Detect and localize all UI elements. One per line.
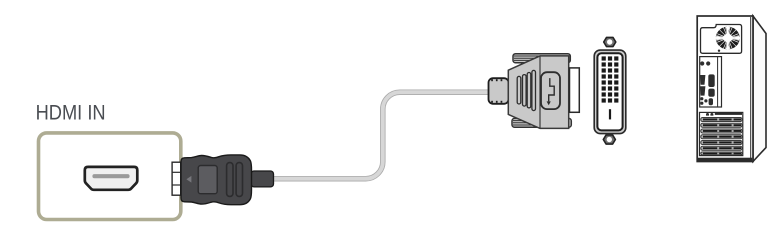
DVI port screw nut top bbox=[604, 37, 616, 46]
I/O panel bbox=[700, 57, 722, 107]
PSU fan bbox=[716, 26, 741, 49]
DVI port pin grid bbox=[602, 56, 619, 102]
DVI connector grip flange bottom bbox=[512, 118, 571, 127]
svg-text:HDMI IN: HDMI IN bbox=[36, 101, 106, 125]
DVI connector strain relief bbox=[489, 78, 509, 104]
HDMI connector body bbox=[181, 155, 252, 205]
expansion slot covers bbox=[701, 117, 742, 154]
DVI port body bbox=[594, 50, 626, 134]
DVI connector grip flange top bbox=[513, 54, 570, 63]
DVI port flat blade slot bbox=[609, 109, 611, 119]
HDMI-DVI cable bbox=[272, 92, 489, 179]
HDMI port bbox=[85, 167, 138, 190]
computer tower front panel bbox=[697, 16, 753, 162]
DVI port screw nut bottom bbox=[603, 135, 615, 144]
DVI connector shell bbox=[508, 56, 568, 128]
computer tower side panel bbox=[753, 16, 766, 162]
DVI connector plug plate bbox=[570, 68, 580, 112]
HDMI IN label bbox=[36, 101, 106, 125]
HDMI IN port box bbox=[39, 133, 181, 220]
DVI connector logo badge bbox=[541, 72, 560, 109]
HDMI connector plug tip bbox=[172, 162, 181, 195]
HDMI connector strain relief bbox=[251, 171, 274, 187]
expansion slot area bbox=[700, 112, 743, 155]
power supply unit bbox=[701, 25, 742, 54]
PSU screw dot bbox=[718, 50, 720, 52]
I/O ports bbox=[700, 61, 715, 105]
